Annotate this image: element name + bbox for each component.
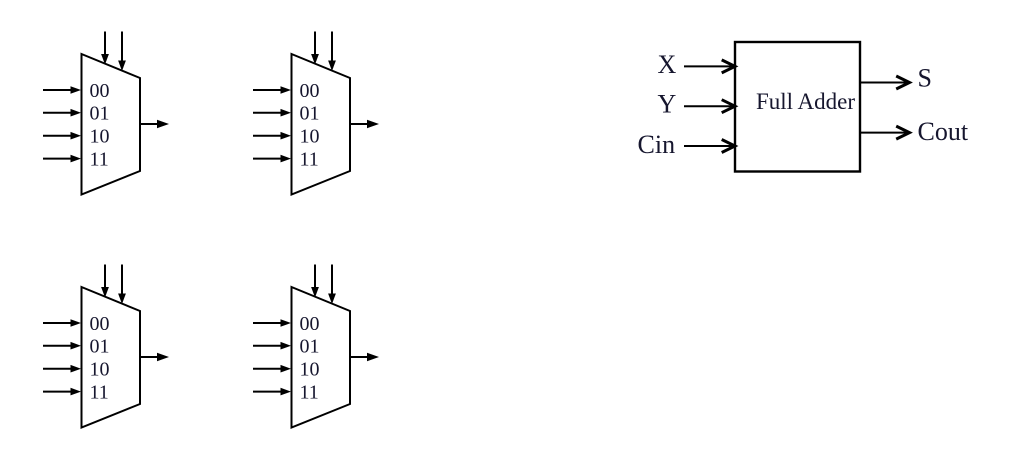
U4 pin label 10	[300, 359, 320, 381]
U1 data input arrow 00	[43, 86, 81, 94]
U4 data input arrow 10	[253, 365, 291, 373]
U4 data input arrow 00	[253, 319, 291, 327]
U2 output arrow	[350, 120, 379, 128]
svg-text:10: 10	[300, 359, 320, 381]
U2 data input arrow 10	[253, 132, 291, 140]
U3 pin label 01	[90, 336, 110, 358]
U1 data input arrow 01	[43, 109, 81, 117]
output S arrow wire	[860, 76, 910, 89]
input Cin label	[638, 130, 676, 159]
U2 select input arrow s1	[328, 32, 336, 72]
U4 data input arrow 01	[253, 342, 291, 350]
svg-text:X: X	[658, 50, 677, 79]
U3 output arrow	[140, 353, 169, 361]
input X arrow wire	[684, 60, 735, 73]
input Y arrow wire	[684, 100, 735, 113]
U1 pin label 01	[90, 103, 110, 125]
U4 pin label 11	[300, 382, 319, 404]
U1 select input arrow s0	[101, 32, 109, 65]
U2 pin label 00	[300, 80, 320, 102]
svg-text:11: 11	[300, 149, 319, 171]
svg-text:00: 00	[300, 313, 320, 335]
U2 data input arrow 01	[253, 109, 291, 117]
U2 data input arrow 11	[253, 155, 291, 163]
svg-text:01: 01	[90, 336, 110, 358]
input Y label	[658, 90, 677, 119]
multiplexer U4 body	[292, 287, 351, 428]
output S label	[918, 63, 932, 92]
U2 pin label 11	[300, 149, 319, 171]
U4 pin label 00	[300, 313, 320, 335]
U4 data input arrow 11	[253, 388, 291, 396]
full adder U5 label	[756, 89, 855, 114]
U2 select input arrow s0	[311, 32, 319, 65]
svg-text:10: 10	[90, 126, 110, 148]
U3 data input arrow 01	[43, 342, 81, 350]
svg-text:11: 11	[300, 382, 319, 404]
U4 pin label 01	[300, 336, 320, 358]
U4 select input arrow s0	[311, 265, 319, 298]
U2 pin label 01	[300, 103, 320, 125]
U1 output arrow	[140, 120, 169, 128]
svg-text:Y: Y	[658, 90, 677, 119]
U3 data input arrow 11	[43, 388, 81, 396]
U1 data input arrow 10	[43, 132, 81, 140]
svg-text:Cin: Cin	[638, 130, 676, 159]
svg-text:Full Adder: Full Adder	[756, 89, 855, 114]
U1 data input arrow 11	[43, 155, 81, 163]
svg-text:S: S	[918, 63, 932, 92]
U1 select input arrow s1	[118, 32, 126, 72]
svg-text:10: 10	[300, 126, 320, 148]
svg-text:Cout: Cout	[918, 117, 969, 146]
svg-text:00: 00	[90, 313, 110, 335]
U3 data input arrow 00	[43, 319, 81, 327]
U3 pin label 00	[90, 313, 110, 335]
U3 select input arrow s0	[101, 265, 109, 298]
full adder U5 body	[735, 42, 860, 172]
U2 pin label 10	[300, 126, 320, 148]
input X label	[658, 50, 677, 79]
multiplexer U3 body	[82, 287, 141, 428]
svg-text:00: 00	[300, 80, 320, 102]
svg-text:00: 00	[90, 80, 110, 102]
multiplexer U2 body	[292, 54, 351, 195]
U3 pin label 11	[90, 382, 109, 404]
svg-text:01: 01	[300, 103, 320, 125]
U1 pin label 10	[90, 126, 110, 148]
U4 output arrow	[350, 353, 379, 361]
output Cout arrow wire	[860, 126, 910, 139]
svg-text:11: 11	[90, 382, 109, 404]
output Cout label	[918, 117, 969, 146]
svg-text:01: 01	[90, 103, 110, 125]
U2 data input arrow 00	[253, 86, 291, 94]
U3 select input arrow s1	[118, 265, 126, 305]
U3 pin label 10	[90, 359, 110, 381]
U1 pin label 00	[90, 80, 110, 102]
svg-text:11: 11	[90, 149, 109, 171]
svg-text:10: 10	[90, 359, 110, 381]
U1 pin label 11	[90, 149, 109, 171]
svg-text:01: 01	[300, 336, 320, 358]
U3 data input arrow 10	[43, 365, 81, 373]
multiplexer U1 body	[82, 54, 141, 195]
U4 select input arrow s1	[328, 265, 336, 305]
input Cin arrow wire	[684, 140, 735, 153]
